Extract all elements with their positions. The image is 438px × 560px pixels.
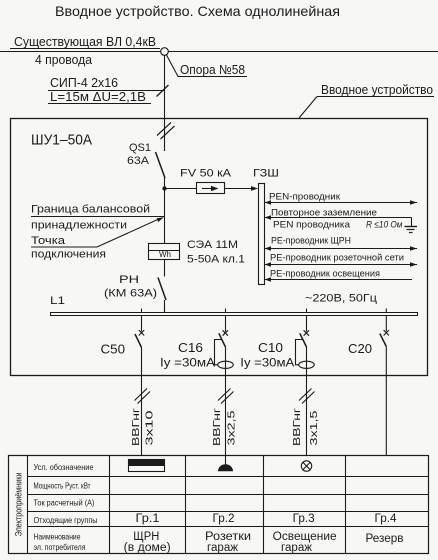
svg-text:Повторное заземление: Повторное заземление [271, 207, 377, 218]
svg-text:FV 50 кА: FV 50 кА [180, 168, 232, 180]
svg-text:гараж: гараж [281, 542, 312, 554]
svg-text:ВВГнг: ВВГнг [292, 408, 303, 446]
svg-text:Мощность Руст. кВт: Мощность Руст. кВт [34, 482, 91, 491]
svg-text:Гр.2: Гр.2 [213, 513, 235, 525]
svg-text:СЭА 11М: СЭА 11М [187, 239, 238, 251]
svg-text:R ≤10 Ом: R ≤10 Ом [366, 220, 403, 231]
svg-text:С20: С20 [348, 341, 372, 356]
svg-text:подключения: подключения [31, 249, 106, 261]
svg-text:эл. потребителя: эл. потребителя [34, 543, 86, 552]
svg-text:Точка: Точка [31, 235, 66, 247]
svg-text:QS1: QS1 [129, 142, 151, 154]
svg-text:Ток расчетный (А): Ток расчетный (А) [34, 499, 95, 508]
svg-text:С10: С10 [258, 340, 283, 355]
svg-text:Гр.1: Гр.1 [136, 513, 160, 525]
svg-text:ГЗШ: ГЗШ [253, 168, 279, 180]
svg-text:ВВГнг: ВВГнг [212, 408, 223, 446]
svg-text:Iу =30мА: Iу =30мА [240, 356, 294, 370]
svg-text:PEN-проводник: PEN-проводник [269, 191, 341, 202]
svg-text:Наименование: Наименование [34, 533, 81, 542]
svg-text:63А: 63А [127, 155, 150, 167]
svg-text:(в доме): (в доме) [124, 542, 171, 554]
svg-text:(КМ 63А): (КМ 63А) [104, 288, 157, 300]
svg-text:3х1,5: 3х1,5 [309, 410, 320, 446]
svg-text:Граница балансовой: Граница балансовой [31, 204, 150, 216]
svg-text:Iу =30мА: Iу =30мА [160, 356, 215, 370]
svg-text:гараж: гараж [207, 542, 238, 554]
svg-text:принадлежности: принадлежности [31, 219, 127, 231]
svg-text:Гр.4: Гр.4 [375, 513, 398, 525]
svg-text:СИП-4 2х16: СИП-4 2х16 [50, 75, 118, 90]
svg-text:РЕ-проводник освещения: РЕ-проводник освещения [270, 268, 380, 279]
svg-text:PEN проводника: PEN проводника [273, 220, 351, 231]
svg-text:ШУ1–50А: ШУ1–50А [31, 132, 92, 149]
svg-text:Вводное устройство: Вводное устройство [321, 82, 433, 97]
svg-text:ВВГнг: ВВГнг [131, 408, 142, 446]
svg-text:5-50А кл.1: 5-50А кл.1 [187, 254, 245, 266]
svg-text:3х2,5: 3х2,5 [227, 410, 238, 446]
svg-text:L=15м ΔU=2,1В: L=15м ΔU=2,1В [50, 89, 146, 104]
svg-text:L1: L1 [50, 295, 65, 307]
svg-text:Отходящие группы: Отходящие группы [34, 516, 98, 525]
svg-text:Электроприёмники: Электроприёмники [14, 473, 24, 537]
svg-text:Существующая ВЛ 0,4кВ: Существующая ВЛ 0,4кВ [14, 34, 156, 49]
svg-text:4 провода: 4 провода [35, 52, 93, 67]
svg-text:С16: С16 [178, 340, 203, 355]
svg-text:Резерв: Резерв [366, 533, 404, 545]
svg-text:~220В, 50Гц: ~220В, 50Гц [305, 293, 378, 305]
svg-text:Опора №58: Опора №58 [180, 62, 245, 77]
svg-text:РЕ-проводник ЩРН: РЕ-проводник ЩРН [271, 236, 351, 247]
svg-text:РН: РН [119, 274, 139, 286]
svg-text:С50: С50 [101, 342, 126, 357]
svg-text:Гр.3: Гр.3 [293, 513, 315, 525]
svg-text:Wh: Wh [159, 250, 171, 259]
svg-text:Вводное устройство. Схема одно: Вводное устройство. Схема однолинейная [55, 3, 340, 19]
svg-text:3х10: 3х10 [145, 410, 156, 446]
svg-text:РЕ-проводник розеточной сети: РЕ-проводник розеточной сети [270, 252, 404, 263]
svg-text:Усл. обозначение: Усл. обозначение [34, 463, 94, 472]
